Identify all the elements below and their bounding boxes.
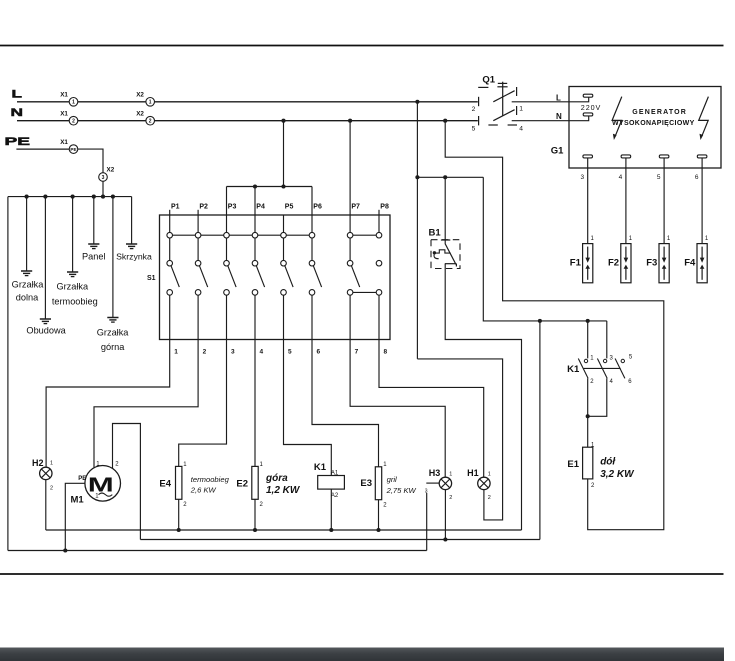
wire generator 5 to fuse F3 (663, 158, 665, 244)
value label 220V (581, 103, 601, 112)
svg-text:X1: X1 (60, 111, 68, 118)
wire H1 bottom to L tap (417, 359, 502, 520)
svg-text:E3: E3 (360, 478, 372, 489)
svg-text:2: 2 (149, 119, 152, 125)
ground Grzalka termoobieg (52, 272, 98, 307)
footer dark bar (0, 648, 724, 661)
svg-text:P2: P2 (199, 204, 208, 211)
svg-text:WYSOKONAPIĘCIOWY: WYSOKONAPIĘCIOWY (612, 120, 695, 127)
ground Grzalka gorna (97, 318, 130, 352)
svg-text:GENERATOR: GENERATOR (632, 109, 687, 116)
wire H3 to bus B (444, 490, 446, 540)
wire K1 pole 3 feed (606, 321, 608, 359)
fuse F2 (608, 244, 631, 283)
svg-text:2: 2 (488, 495, 491, 501)
pin label P5 (285, 204, 294, 211)
svg-text:X2: X2 (136, 111, 144, 118)
connector X1 pin 1 on L (60, 92, 78, 107)
svg-text:6: 6 (695, 174, 699, 181)
svg-text:dolna: dolna (16, 293, 39, 303)
wire exit 7 to lamp H3 (350, 340, 445, 478)
svg-text:L: L (12, 88, 23, 100)
svg-text:X2: X2 (107, 167, 115, 174)
fuse F4 (684, 244, 707, 283)
svg-text:4: 4 (610, 379, 614, 385)
svg-text:Grzałka: Grzałka (56, 281, 89, 291)
motor M1 (71, 462, 121, 506)
svg-text:1: 1 (591, 443, 595, 449)
pin label P1 (171, 204, 180, 211)
svg-text:górna: górna (101, 342, 125, 352)
wire generator 6 to fuse F4 (701, 158, 703, 244)
svg-text:E2: E2 (236, 479, 248, 490)
switch S1 pole 5 (281, 215, 293, 340)
svg-text:1: 1 (449, 472, 452, 478)
svg-text:Grzałka: Grzałka (12, 279, 45, 289)
svg-text:5: 5 (629, 355, 633, 361)
svg-text:N: N (11, 107, 24, 119)
pin label 4 (generator) (619, 174, 623, 181)
connector X2 pin 2 on N (136, 111, 154, 125)
wire generator 3 to fuse F1 (587, 158, 589, 244)
wire L rail (17, 101, 478, 103)
pin label S1 exit 2 (203, 348, 207, 355)
HV symbol left bolt (612, 97, 622, 140)
node K1 A2 on bus A (329, 528, 333, 532)
wire M1 PE to bus C (65, 483, 85, 550)
wire S1 common row line P1-P6 (170, 234, 312, 236)
svg-text:A1: A1 (331, 470, 339, 476)
svg-text:220V: 220V (581, 103, 601, 112)
node B1 feed junction (443, 175, 447, 179)
svg-text:2: 2 (449, 495, 452, 501)
svg-text:1: 1 (174, 348, 178, 355)
wire K1 pole outputs join (588, 378, 607, 447)
wire bus A (heater return) (46, 529, 522, 531)
node K1 feed junction left (538, 319, 542, 323)
pin label 1 of F1 (591, 236, 595, 242)
breaker Q1 (472, 75, 524, 133)
switch block S1 outline (160, 215, 391, 340)
wire L tap vertical (416, 102, 418, 359)
net label PE (5, 136, 31, 148)
node E4 on bus A (177, 528, 181, 532)
svg-text:3: 3 (102, 175, 105, 181)
wire riser to bus B (539, 321, 541, 540)
svg-text:2: 2 (472, 106, 476, 113)
svg-text:2,75 KW: 2,75 KW (386, 486, 417, 495)
generator G1 label (551, 145, 564, 156)
connector X1 pin PE (60, 139, 78, 153)
pin label S1 exit 7 (355, 348, 359, 355)
wire N tap to E1 loop (445, 121, 664, 530)
pin label 1 of F4 (705, 236, 709, 242)
svg-text:L: L (556, 93, 561, 102)
svg-text:P6: P6 (313, 204, 322, 211)
svg-text:8: 8 (384, 348, 388, 355)
wire bus C (PE bottom) (8, 550, 427, 552)
pin label S1 exit 4 (260, 348, 264, 355)
pin label S1 exit 3 (231, 348, 235, 355)
wire exit 1 to lamp H2 (46, 340, 170, 468)
svg-text:F2: F2 (608, 257, 619, 268)
node E3 on bus A (376, 528, 380, 532)
switch S1 pole 6 (309, 215, 321, 340)
ground Panel (82, 244, 106, 261)
switch S1 pole 7 (347, 215, 359, 340)
svg-text:2: 2 (590, 379, 594, 385)
svg-text:1: 1 (383, 462, 387, 468)
switch S1 pole 1 (167, 215, 179, 340)
svg-text:1: 1 (590, 356, 594, 362)
lamp H1 (467, 468, 491, 501)
switch block S1 label (147, 275, 156, 282)
svg-text:P7: P7 (351, 204, 360, 211)
generator G1 box (569, 87, 721, 169)
connector X2 pin 1 on L (136, 92, 154, 107)
svg-text:K1: K1 (314, 462, 327, 473)
wire P1 stub (169, 210, 171, 215)
svg-text:1: 1 (183, 462, 187, 468)
wire B1 out to bus A (445, 264, 521, 530)
svg-text:2,6 KW: 2,6 KW (190, 486, 217, 495)
wire exit 3 to heater E4 (179, 340, 227, 467)
pin label 3 (generator) (580, 174, 584, 181)
svg-text:5: 5 (657, 174, 661, 181)
lamp H3 (429, 468, 452, 501)
svg-text:PE: PE (5, 136, 31, 148)
pin label P3 (228, 204, 237, 211)
wire H2 to bus A (45, 480, 47, 530)
svg-text:H3: H3 (429, 468, 441, 478)
svg-text:F3: F3 (646, 257, 657, 268)
wire E3 to bus A (378, 500, 380, 530)
pin label S1 exit 8 (384, 348, 388, 355)
pin label S1 exit 1 (174, 348, 178, 355)
svg-text:1,2 KW: 1,2 KW (266, 485, 301, 496)
terminal 220V N (583, 113, 593, 116)
wire E4 to bus A (178, 499, 180, 530)
net label N (11, 107, 24, 119)
generator title text (612, 109, 695, 127)
wire to ground Panel (93, 197, 95, 244)
wire P6 feed from tie (311, 187, 313, 216)
wire P4 feed from tie (254, 187, 256, 216)
svg-text:Panel: Panel (82, 251, 106, 261)
node M1 PE on bus C (63, 548, 67, 552)
svg-text:H2: H2 (32, 458, 44, 468)
svg-text:Obudowa: Obudowa (26, 326, 66, 336)
thermal switch B1 (429, 228, 461, 269)
svg-text:2: 2 (183, 502, 187, 508)
wire exit 6 to heater E3 (312, 340, 379, 467)
svg-text:X1: X1 (60, 92, 68, 99)
svg-text:5: 5 (288, 348, 292, 355)
svg-text:G1: G1 (551, 145, 564, 156)
wire B1 feed (444, 177, 446, 244)
wire N to P7 column (349, 121, 351, 215)
wire to ground Grzalka gorna (112, 197, 114, 318)
pin label S1 exit 5 (288, 348, 292, 355)
svg-text:6: 6 (628, 379, 632, 385)
connector X2 pin 3 on PE (99, 167, 115, 182)
terminal generator pin 5 (659, 155, 669, 158)
wire to ground Obudowa (44, 197, 46, 319)
svg-text:1: 1 (629, 236, 633, 242)
pin label P2 (199, 204, 208, 211)
svg-text:7: 7 (355, 348, 359, 355)
svg-text:2: 2 (203, 348, 207, 355)
ground Grzalka dolna (12, 271, 45, 303)
wire bus B (motor/lamp return) (140, 539, 540, 541)
svg-text:X2: X2 (136, 92, 144, 99)
svg-text:1: 1 (72, 100, 75, 106)
svg-text:gril: gril (387, 475, 397, 484)
svg-text:P4: P4 (256, 204, 265, 211)
switch S1 pole 2 (195, 215, 207, 340)
resistor E2 heater gora (236, 462, 301, 508)
wire N to tie (P5 column) (283, 121, 285, 187)
svg-text:A2: A2 (331, 493, 339, 499)
node H3 on bus B (443, 537, 447, 541)
svg-text:1: 1 (488, 472, 491, 478)
svg-text:M1: M1 (71, 495, 85, 506)
svg-text:5: 5 (472, 126, 476, 133)
node N tap P7 (348, 119, 352, 123)
resistor E4 heater termoobieg (159, 462, 229, 508)
svg-text:1: 1 (591, 236, 595, 242)
wire exit 8 to lamp H1 (379, 340, 484, 478)
svg-text:4: 4 (619, 174, 623, 181)
pin label P6 (313, 204, 322, 211)
relay coil K1 (314, 462, 345, 499)
svg-text:K1: K1 (567, 364, 580, 375)
svg-text:P1: P1 (171, 204, 180, 211)
pin label P4 (256, 204, 265, 211)
wire generator 4 to fuse F2 (625, 158, 627, 244)
node N tap P5 (281, 119, 285, 123)
svg-text:4: 4 (260, 348, 264, 355)
svg-text:2: 2 (72, 119, 75, 125)
wire Q1 out N (512, 116, 589, 121)
svg-text:Grzałka: Grzałka (97, 328, 130, 338)
wire L branch horizontal (417, 176, 483, 178)
pin label N (generator) (556, 112, 562, 121)
wire P2 stub (197, 210, 199, 215)
wire H3 side terminal (425, 483, 440, 494)
svg-text:1: 1 (705, 236, 709, 242)
svg-text:H1: H1 (467, 468, 479, 478)
svg-text:2: 2 (591, 483, 595, 489)
svg-text:1: 1 (50, 460, 53, 466)
wire Q1 out L (512, 97, 589, 102)
svg-text:S1: S1 (147, 275, 156, 282)
connector X1 pin 2 on N (60, 111, 78, 125)
pin label 6 (generator) (695, 174, 699, 181)
pin label L (generator) (556, 93, 561, 102)
wire tie P3-P6 (227, 186, 313, 188)
node L tap (415, 100, 419, 104)
node tie junction P4 (253, 184, 257, 188)
svg-text:1: 1 (149, 100, 152, 106)
svg-text:E1: E1 (567, 459, 579, 470)
svg-text:PE: PE (70, 147, 76, 152)
page top rule (0, 45, 724, 47)
wire exit 5 to relay coil K1 A1 (284, 340, 332, 476)
svg-text:E4: E4 (159, 479, 171, 490)
wire P8 stub (378, 210, 380, 215)
svg-text:P3: P3 (228, 204, 237, 211)
wire P3 feed from tie (226, 187, 228, 216)
lamp H2 (32, 458, 53, 492)
svg-text:1: 1 (519, 106, 523, 113)
wire to ground Grzalka termoobieg (72, 197, 74, 272)
pin label 5 (generator) (657, 174, 661, 181)
svg-text:góra: góra (265, 473, 288, 484)
svg-text:2: 2 (50, 486, 53, 492)
svg-text:dół: dół (600, 457, 616, 468)
wire K1 A2 to bus A (330, 489, 332, 530)
svg-text:P5: P5 (285, 204, 294, 211)
switch S1 pole 4 (252, 215, 264, 340)
svg-text:4: 4 (519, 125, 523, 132)
svg-text:3: 3 (580, 174, 584, 181)
ground Skrzynka (116, 244, 152, 261)
node N tap (443, 119, 447, 123)
wire PE rail (16, 148, 69, 150)
wire M1 pin 2 riser (113, 424, 141, 540)
wire exit 2 to motor M1 pin 1 (94, 340, 198, 469)
svg-text:PE: PE (78, 476, 86, 482)
svg-text:6: 6 (317, 348, 321, 355)
svg-text:1: 1 (667, 236, 671, 242)
svg-text:3,2 KW: 3,2 KW (600, 469, 635, 480)
page bottom rule (0, 573, 724, 575)
wire bus C riser to H3 (426, 493, 428, 551)
terminal generator pin 6 (697, 155, 707, 158)
svg-text:Skrzynka: Skrzynka (116, 251, 152, 261)
node K1 feed junction F1 (586, 319, 590, 323)
svg-text:2: 2 (115, 462, 119, 468)
pin label S1 exit 6 (317, 348, 321, 355)
svg-text:termoobieg: termoobieg (52, 297, 98, 307)
svg-text:1: 1 (260, 462, 264, 468)
pin label P7 (351, 204, 360, 211)
node tie junction P5 (281, 184, 285, 188)
wire N rail (17, 120, 478, 122)
svg-text:3: 3 (610, 356, 614, 362)
fuse F1 (570, 244, 593, 283)
svg-text:F4: F4 (684, 257, 696, 268)
svg-text:termoobieg: termoobieg (191, 475, 230, 484)
wire E2 to bus A (254, 499, 256, 530)
wire S1 top tie P7-P8 (350, 234, 379, 236)
wire PE bus (8, 196, 132, 198)
node K1 output junction (586, 414, 590, 418)
svg-text:3: 3 (231, 348, 235, 355)
svg-text:F1: F1 (570, 257, 582, 268)
node PE bus junctions (25, 195, 115, 199)
svg-text:Q1: Q1 (482, 75, 495, 86)
wire K1 pole 1 feed (587, 321, 589, 359)
switch S1 pole 8 (376, 215, 382, 340)
svg-text:B1: B1 (429, 228, 442, 239)
terminal 220V L (583, 94, 593, 97)
wire left PE rail down (7, 197, 9, 551)
wire to ground Grzalka dolna (26, 197, 28, 271)
wire to ground Skrzynka (131, 197, 133, 244)
svg-text:2: 2 (260, 502, 264, 508)
node E2 on bus A (253, 528, 257, 532)
ground Obudowa (26, 319, 66, 336)
wire L branch to K1 contacts feed (483, 177, 607, 321)
wire S1 bottom tie pins 7-8 (350, 291, 379, 293)
wire X2-3 down to PE bus (102, 181, 104, 196)
switch S1 pole 3 (224, 215, 236, 340)
pin label 1 of F3 (667, 236, 671, 242)
HV symbol right bolt (699, 97, 709, 140)
resistor E3 heater gril (360, 462, 416, 508)
wire PE jog to X2 (78, 149, 103, 173)
resistor E1 heater dol (567, 443, 635, 490)
relay contact K1 poles (567, 355, 633, 386)
svg-text:P8: P8 (380, 204, 389, 211)
pin label 1 of F2 (629, 236, 633, 242)
terminal generator pin 4 (621, 155, 631, 158)
wire exit 4 to heater E2 (254, 340, 256, 467)
svg-text:2: 2 (383, 503, 387, 509)
svg-text:X1: X1 (60, 139, 68, 146)
svg-text:N: N (556, 112, 562, 121)
terminal generator pin 3 (583, 155, 593, 158)
net label L (12, 88, 23, 100)
fuse F3 (646, 244, 669, 283)
node L branch junction (415, 175, 419, 179)
pin label P8 (380, 204, 389, 211)
